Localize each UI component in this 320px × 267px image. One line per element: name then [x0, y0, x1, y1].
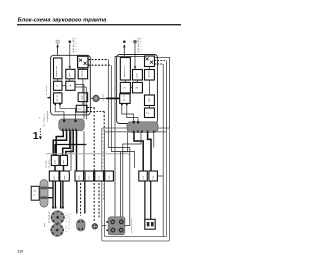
svg-text:инд.: инд.: [153, 175, 155, 179]
row2 box M5: [95, 171, 104, 181]
wire U16 to U18: [149, 106, 151, 109]
flywheel (gray circle 2): [51, 224, 64, 237]
svg-text:эл.м.: эл.м.: [79, 175, 81, 180]
row1 box K2: [60, 155, 67, 165]
svg-text:вых.: вых.: [78, 109, 83, 111]
wire U12 to U15: [136, 80, 138, 82]
wire U17 pin1 to head: [122, 105, 134, 121]
box U12: [133, 70, 143, 81]
svg-text:усил.: усил.: [136, 72, 138, 77]
motor M (gray circle 1): [51, 211, 64, 224]
svg-text:реле: реле: [63, 160, 65, 164]
row2 box M1: [49, 171, 59, 181]
row2 box M2: [60, 171, 70, 181]
svg-text:упр. двиг.: упр. двиг.: [46, 159, 48, 168]
thick wire bus right 1: [134, 132, 143, 171]
svg-text:громкоговоритель: громкоговоритель: [131, 218, 133, 233]
svg-text:Блок-схема звукового тракта: Блок-схема звукового тракта: [18, 17, 108, 23]
row1 box K1: [51, 155, 59, 165]
wire J4 down into right block: [134, 44, 136, 68]
wire U7 to U9: [82, 102, 84, 106]
dashed wire to capsule2: [80, 183, 82, 216]
svg-text:6 —: 6 —: [73, 51, 78, 53]
svg-text:6 —: 6 —: [138, 51, 143, 53]
amp stage U10: [120, 58, 130, 81]
left channel block A1: [51, 55, 91, 115]
counter box CT1: [145, 219, 155, 229]
wire U8 pin1 to head: [55, 105, 64, 119]
wire end pads: [52, 207, 54, 209]
dashed vertical to speaker SP1: [93, 107, 95, 222]
wire to SP1 left: [102, 225, 107, 227]
wire VR1 to right block (bold): [99, 97, 106, 99]
svg-text:1: 1: [33, 130, 39, 142]
right channel block A2: [117, 55, 158, 124]
box U13: [145, 70, 155, 81]
svg-text:эл.м.: эл.м.: [108, 175, 110, 180]
box U8 (head amp): [54, 93, 63, 103]
wire U1 to U5: [57, 79, 59, 81]
thick wire bus left 1: [56, 131, 63, 156]
thick wire bus left 5: [76, 131, 78, 171]
volume knob VR1: [90, 97, 92, 99]
wire gap vertical 1: [108, 60, 130, 226]
wire arrow up to J3: [123, 46, 125, 56]
pins of U17: [121, 103, 123, 105]
wire N2 right stub: [157, 175, 163, 177]
label box for X1: [31, 186, 39, 200]
svg-text:лин. выход: лин. выход: [44, 116, 46, 127]
svg-text:4—: 4—: [69, 222, 72, 224]
box U16: [145, 95, 155, 106]
wire X1 stub 1: [48, 187, 53, 189]
dashed vertical 2: [103, 111, 105, 200]
amp stage U1: [54, 58, 63, 79]
wire U13 to U16: [149, 80, 151, 95]
enclosure inner rect: [104, 132, 166, 237]
title rule: [17, 24, 181, 25]
switch box U11 (two cross glyphs): [145, 56, 155, 67]
svg-text:фильтр: фильтр: [81, 69, 84, 77]
enclosure outer rect: [102, 128, 170, 241]
speaker SP1 (4 screws): [108, 217, 125, 235]
box U7: [78, 93, 87, 102]
svg-text:громкость: громкость: [103, 93, 105, 102]
svg-text:усил.: усил.: [69, 72, 71, 77]
wire to capsule2 b: [84, 181, 86, 214]
gray chassis line: [46, 154, 129, 171]
wire K2 down: [63, 166, 65, 172]
wire U17 pin2 to head: [127, 105, 138, 121]
thick wire bus left crossbar: [55, 145, 86, 156]
wire U5 to U6: [62, 85, 66, 87]
svg-text:вых: вых: [33, 191, 36, 193]
wire thin bus 6: [70, 131, 72, 171]
svg-text:усил.: усил.: [82, 94, 84, 99]
tape head block TH2 (right, gray): [127, 122, 158, 133]
wire right vertical A: [165, 60, 167, 131]
row2 box pair N2: [149, 171, 158, 181]
wire bus right 5: [153, 132, 155, 147]
dashed wire U11 out 2: [154, 63, 163, 65]
box U3: [66, 69, 75, 79]
labels near solenoid: [69, 214, 72, 231]
svg-text:эл.м.: эл.м.: [98, 175, 100, 180]
svg-text:3 —: 3 —: [65, 231, 68, 233]
row2 box M3: [75, 171, 84, 181]
tick marks left of motor: [48, 212, 50, 215]
svg-text:двиг.: двиг.: [53, 175, 55, 180]
svg-text:вых.: вых.: [146, 113, 151, 115]
dashed wire U2 out 2: [88, 64, 111, 66]
svg-text:узел: узел: [44, 223, 46, 227]
jack J1 (line out, open circle): [56, 40, 59, 43]
svg-text:инд.: инд.: [142, 175, 144, 179]
svg-text:реле: реле: [54, 160, 56, 164]
box U5: [54, 81, 63, 90]
svg-text:5—: 5—: [69, 225, 72, 227]
wire U4 to U7: [82, 79, 84, 93]
box U4: [78, 69, 87, 79]
wire gap vertical 3: [115, 56, 145, 217]
thick wires below row2 left: [52, 181, 54, 208]
wire bus down from U6: [83, 85, 85, 120]
svg-text:стереоканал: стереоканал: [47, 111, 49, 122]
wire N1 down to CT1: [144, 181, 146, 219]
dashed wire U9 out 2: [87, 110, 104, 112]
wire right vertical B: [162, 64, 164, 237]
svg-text:2—: 2—: [69, 216, 72, 218]
wire U2 to U4: [82, 68, 84, 70]
wire U11 solid out: [154, 57, 169, 128]
wire J2 down into block: [69, 43, 71, 67]
svg-text:эл. магнит: эл. магнит: [49, 159, 51, 168]
svg-text:6—: 6—: [69, 228, 72, 230]
wire N2 down to CT1: [150, 181, 152, 219]
svg-text:ун. гол.: ун. гол.: [124, 94, 126, 101]
wire U14 to U15: [130, 87, 132, 89]
wire K1 down: [54, 166, 56, 172]
svg-text:120: 120: [17, 249, 23, 253]
svg-text:эл.м.: эл.м.: [89, 175, 91, 180]
arrow out left: [49, 97, 51, 99]
svg-text:фильтр: фильтр: [147, 70, 150, 78]
row2 box M4: [85, 171, 94, 181]
connector X1 (capsule left): [40, 180, 48, 208]
solenoid (capsule 2): [77, 219, 85, 231]
svg-text:усил.: усил.: [148, 97, 150, 102]
wire U10 to U14: [124, 80, 126, 82]
wire U8 pin2 to head: [60, 105, 75, 119]
svg-text:вх. сигнал: вх. сигнал: [46, 86, 48, 95]
pins of U8: [54, 103, 56, 105]
svg-text:двиг.: двиг.: [64, 175, 66, 180]
wire bus right 4: [123, 132, 141, 217]
box U6: [66, 81, 75, 90]
dashed wire right of M5: [98, 183, 100, 219]
svg-text:3—: 3—: [69, 219, 72, 221]
thick wire bus left 2: [53, 131, 66, 156]
box U18: [145, 108, 155, 118]
svg-text:1—: 1—: [69, 214, 72, 216]
wire U6 right to bus: [75, 84, 84, 86]
wire U11 to U13: [149, 67, 151, 70]
tape head block TH1 (left, gray): [59, 119, 84, 131]
wire U3 to U6: [69, 79, 71, 81]
box U15: [133, 82, 143, 93]
legend text at J4: [138, 38, 145, 53]
box U17 (head amp): [120, 94, 130, 104]
svg-text:усилит. зап.: усилит. зап.: [124, 66, 126, 77]
row2 box M6: [105, 171, 114, 181]
labels near motor: [65, 213, 68, 233]
thick wire bus left 3: [63, 131, 70, 156]
svg-text:усилит. зап.: усилит. зап.: [56, 65, 58, 76]
svg-text:вх: вх: [33, 195, 35, 197]
svg-text:ун. гол.: ун. гол.: [57, 94, 59, 101]
wire to capsule2 a: [76, 181, 78, 214]
jack J3 (right line out, filled circle): [123, 40, 126, 43]
legend text at J2: [73, 38, 78, 53]
small motor (dark circle): [92, 223, 98, 229]
dashed wire U2 out 1: [88, 59, 108, 61]
box U14: [120, 82, 130, 93]
wire thin bus 7: [83, 131, 85, 171]
wire X1 stub 2: [48, 197, 53, 199]
thick wire bus right 2: [148, 132, 151, 171]
switch box U2 (two cross glyphs): [78, 56, 88, 68]
wire bus right 3: [121, 132, 128, 217]
wire gap vertical 2: [111, 65, 134, 168]
jack J4 (right line in): [133, 40, 136, 43]
wire arrow up to J1: [57, 46, 59, 55]
jack J2 (line in, filled circle): [68, 40, 71, 43]
box U9 (output): [76, 105, 87, 112]
thick wire bus left 4: [66, 131, 73, 156]
row2 box pair N1: [139, 171, 148, 181]
dashed wire U11 out 1: [154, 59, 166, 61]
dashed wire U9 out 1: [87, 106, 94, 108]
svg-text:2 —: 2 —: [44, 116, 47, 118]
